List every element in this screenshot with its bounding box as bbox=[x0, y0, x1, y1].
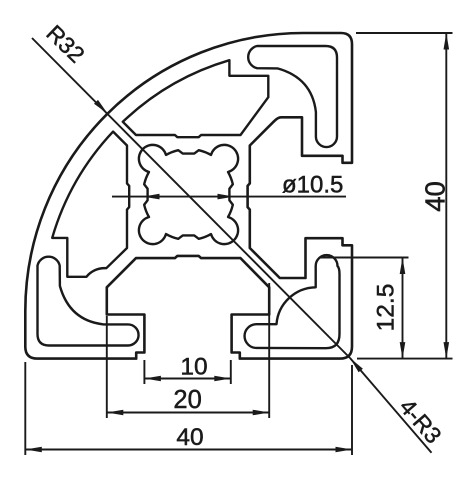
dimension line 12.5 bbox=[402, 258, 404, 359]
arrow left on circle bbox=[143, 194, 160, 200]
arrow up 40 right bbox=[444, 33, 450, 50]
svg-text:20: 20 bbox=[173, 386, 201, 414]
arrow on 4-R3 leader at corner bbox=[350, 358, 363, 372]
extension line 12.5 top bbox=[320, 257, 409, 259]
arrow down 12.5 bbox=[400, 342, 406, 359]
diagonal leader line R32 through profile bbox=[32, 38, 350, 358]
arrow right 10 bbox=[214, 376, 231, 382]
svg-text:10: 10 bbox=[180, 354, 207, 381]
dimension line 20 bbox=[107, 412, 269, 414]
dimension line 40 right bbox=[445, 33, 447, 359]
svg-text:40: 40 bbox=[176, 424, 203, 451]
leader 4-R3 bbox=[350, 358, 432, 453]
profile outer contour with right and bottom T-slots bbox=[25, 33, 352, 359]
extension line top right bbox=[356, 32, 453, 34]
svg-text:ø10.5: ø10.5 bbox=[282, 172, 343, 199]
center clover bore (Ø10.5 with four lobes) bbox=[139, 145, 238, 244]
top cavity (between hub, webs, inner arc wall and top-right block) bbox=[123, 60, 268, 137]
arrow right 20 bbox=[253, 410, 270, 416]
arrow left 40 bottom bbox=[25, 447, 42, 453]
arrow up 12.5 bbox=[400, 258, 406, 275]
extension lines 20 bbox=[107, 283, 269, 418]
dimension line 10 bbox=[144, 378, 230, 380]
arrow down 40 right bbox=[444, 342, 450, 359]
arrow right 40 bottom bbox=[336, 447, 353, 453]
arrow left 10 bbox=[144, 376, 161, 382]
arrow on R32 leader at outer arc bbox=[94, 100, 108, 114]
top-right corner block cavity bbox=[248, 46, 337, 147]
svg-text:40: 40 bbox=[420, 181, 451, 212]
extension line bottom right bbox=[357, 358, 453, 360]
bottom-right corner block cavity bbox=[245, 255, 340, 348]
arrow right on circle bbox=[218, 194, 235, 200]
bottom-left corner block cavity bbox=[38, 257, 139, 346]
svg-text:12.5: 12.5 bbox=[373, 284, 400, 332]
extension lines 10 bbox=[144, 360, 230, 384]
dimension line bottom 40 bbox=[25, 449, 352, 451]
arrow left 20 bbox=[107, 410, 124, 416]
leader line for Ø10.5 bbox=[112, 196, 346, 198]
extension lines bottom 40 bbox=[25, 362, 352, 455]
left cavity (between hub, webs, inner arc wall and bottom-left block) bbox=[52, 132, 129, 277]
